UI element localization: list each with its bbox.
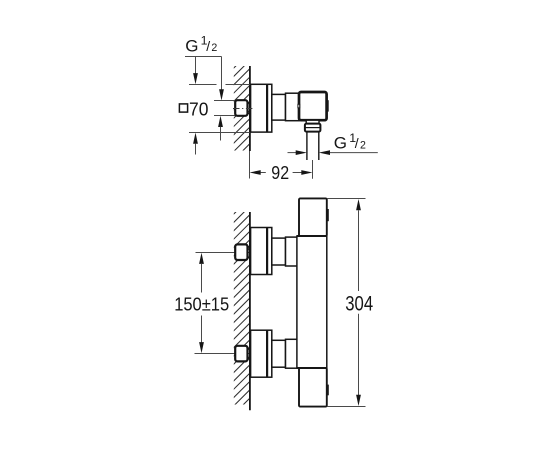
- svg-text:70: 70: [189, 98, 208, 119]
- svg-text:G: G: [185, 36, 198, 55]
- svg-text:G: G: [334, 134, 347, 153]
- svg-text:2: 2: [211, 42, 217, 54]
- svg-text:304: 304: [345, 293, 373, 316]
- svg-text:2: 2: [360, 140, 366, 152]
- svg-text:92: 92: [271, 162, 289, 183]
- svg-text:150±15: 150±15: [174, 293, 229, 314]
- svg-text:/: /: [206, 38, 210, 54]
- svg-text:/: /: [355, 135, 359, 151]
